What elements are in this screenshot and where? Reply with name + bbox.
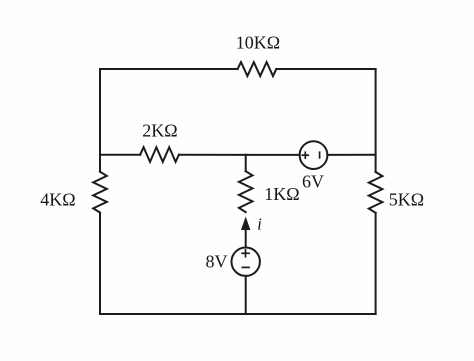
wire bottom rail	[100, 313, 376, 315]
source V2 6V circle	[300, 141, 328, 169]
wire middle-center segment	[179, 154, 300, 156]
wire top-left segment	[100, 68, 238, 70]
svg-text:4KΩ: 4KΩ	[40, 190, 75, 210]
wire left-lower segment	[99, 213, 101, 314]
svg-text:10KΩ: 10KΩ	[236, 33, 280, 53]
plus sign inside 8V source	[241, 252, 250, 254]
minus bar inside 6V source	[319, 151, 321, 158]
minus sign inside 8V source	[242, 266, 250, 268]
source V1 8V circle	[232, 248, 260, 276]
resistor 5K zigzag	[369, 172, 383, 213]
svg-text:i: i	[257, 215, 262, 234]
svg-text:6V: 6V	[302, 172, 324, 192]
svg-text:8V: 8V	[206, 252, 228, 272]
resistor 1K zigzag	[239, 171, 253, 212]
wire middle branch upper	[245, 155, 247, 172]
resistor 10K zigzag	[238, 62, 277, 76]
wire right-lower segment	[375, 213, 377, 314]
wire left-upper segment	[99, 69, 101, 172]
wire top-right segment	[276, 68, 375, 70]
current arrow head i	[241, 217, 250, 231]
plus sign inside 6V source	[302, 154, 310, 156]
svg-text:1KΩ: 1KΩ	[264, 184, 299, 204]
svg-text:2KΩ: 2KΩ	[142, 121, 177, 141]
wire middle branch arrow-to-circle	[245, 229, 247, 248]
svg-text:5KΩ: 5KΩ	[389, 190, 424, 210]
wire middle-left segment	[100, 154, 140, 156]
wire right-upper segment	[375, 69, 377, 172]
wire middle branch lower	[245, 276, 247, 314]
resistor 2K zigzag	[140, 147, 179, 162]
resistor 4K zigzag	[93, 172, 107, 213]
wire middle-right segment	[327, 154, 375, 156]
